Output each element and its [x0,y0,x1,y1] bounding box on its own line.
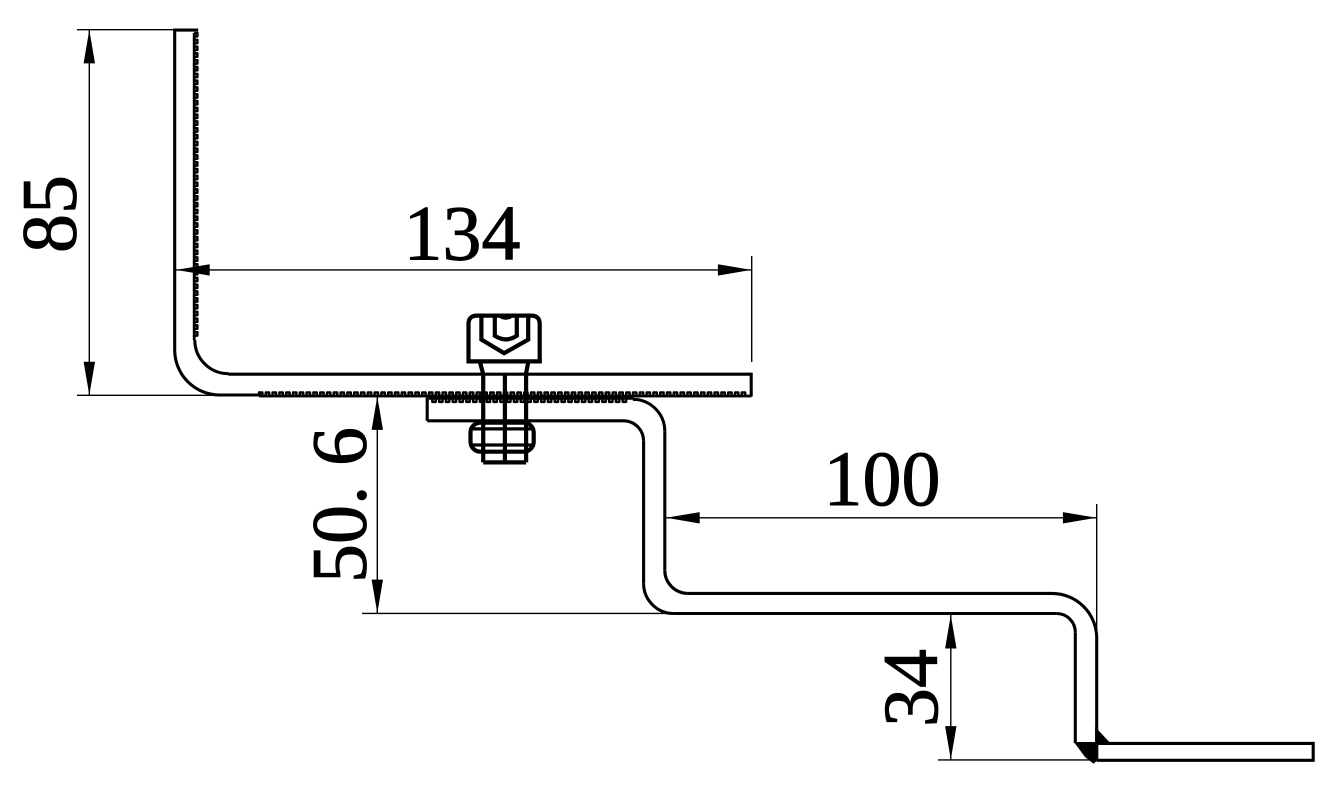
serrated L-plate horizontal arm top edge [229,373,752,376]
dim 100 dimension line [666,517,1097,519]
dim 85 dimension line [88,30,90,396]
Z-bracket top flange bottom edge [427,419,623,422]
Z-bracket vertical web 2 right line [1095,638,1098,743]
Z-bracket middle flange bottom edge [674,612,1057,615]
Z-bracket bend3 inner curve [1057,614,1076,633]
bolt shank bottom end edge [483,460,526,464]
dim 34 bottom extension line [938,759,1090,761]
serrated L-plate inner serrated vertical edge [193,33,196,340]
serrated L-plate inner bend curve [195,340,229,374]
dim 34 dimension line [950,615,952,760]
dim 100 right extension line [1096,504,1098,640]
dim 100 arrow left [666,512,700,523]
svg-text:134: 134 [404,190,521,277]
bolt neck taper left [480,361,483,374]
dim 34 arrow up [945,615,956,649]
bolt head bottom edge [467,359,542,363]
Z-bracket bottom flange bottom edge [1097,759,1314,762]
bolt head outline [469,316,540,364]
bolt head outer facet chevron [481,316,528,354]
dim 134 arrow left [176,264,210,275]
dim 134 arrow right [718,264,752,275]
Z-bracket top flange left end edge [426,398,429,421]
dim 100 arrow right [1063,512,1097,523]
bolt head socket top arc [495,314,517,320]
Z-bracket middle flange top edge [688,592,1052,595]
dim 85 arrow up [84,30,95,64]
dim 134 dimension line [176,269,752,271]
nut facet line upper [471,427,534,430]
Z-bracket vertical web 1 right line [663,431,666,570]
serrated L-plate bottom serrated edge [259,395,752,398]
Z-bracket bottom flange right end edge [1312,742,1315,762]
Z-bracket bend2 outer curve [644,583,674,613]
dim 50.6 dimension line [376,396,378,613]
Z-bracket bend2 inner curve [665,570,688,593]
dim 85 arrow down [84,362,95,396]
svg-text:85: 85 [6,175,93,253]
bolt shank left line [481,374,485,462]
svg-text:50. 6: 50. 6 [296,427,383,583]
bolt shank right line [524,374,528,462]
dim 50.6 arrow down [372,580,383,614]
Z-bracket bend1 inner curve [624,421,644,441]
Z-bracket bend3 outer curve [1052,593,1097,638]
dim 134 right extension line [751,256,753,362]
dim 50.6 bottom extension line [362,612,674,614]
hex flange nut outline [471,423,534,452]
serrated L-plate left/outer edge with bottom bend [175,29,261,395]
serrated L-plate top edge [173,29,198,32]
dim 85 top extension line [77,29,174,31]
bolt neck taper right [526,361,529,374]
svg-text:100: 100 [824,435,941,522]
Z-bracket vertical web 2 left line [1074,632,1077,743]
dim 50.6 arrow up [372,396,383,430]
bolt head inner socket U [495,316,517,340]
Z-bracket bottom corner outer fill [1074,742,1098,764]
bolt shank thread center line [503,374,507,462]
Z-bracket bend1 outer curve [633,399,665,431]
Z-bracket bottom flange top edge [1097,742,1314,745]
Z-bracket vertical web 1 left line [642,441,645,584]
dim 34 arrow down [945,726,956,760]
nut facet line lower [471,443,534,446]
Z-bracket bottom corner inner fill [1095,727,1111,744]
svg-text:34: 34 [867,649,954,727]
dim 85 bottom extension line [77,394,228,396]
serrated L-plate right end edge [750,373,753,397]
Z-bracket top flange serrated top edge [429,397,634,400]
